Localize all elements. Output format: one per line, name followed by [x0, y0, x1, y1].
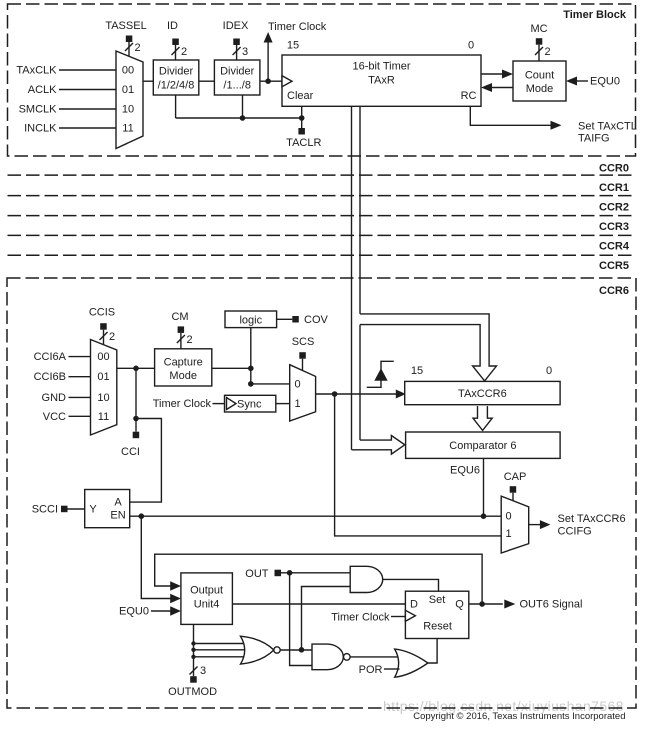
- svg-text:/1/2/4/8: /1/2/4/8: [158, 80, 195, 92]
- svg-text:Y: Y: [89, 504, 97, 516]
- svg-text:RC: RC: [461, 90, 477, 102]
- svg-text:0: 0: [546, 365, 552, 377]
- svg-text:Sync: Sync: [237, 399, 262, 411]
- svg-text:INCLK: INCLK: [24, 123, 57, 135]
- svg-text:OUT6 Signal: OUT6 Signal: [520, 599, 583, 611]
- svg-text:Capture: Capture: [164, 357, 203, 369]
- svg-text:SCCI: SCCI: [32, 504, 58, 516]
- svg-text:CM: CM: [171, 311, 188, 323]
- svg-text:2: 2: [187, 334, 193, 346]
- svg-text:2: 2: [109, 331, 115, 343]
- svg-text:Divider: Divider: [220, 66, 255, 78]
- svg-text:CCR2: CCR2: [599, 202, 629, 214]
- svg-text:1: 1: [294, 398, 300, 410]
- svg-text:SCS: SCS: [292, 336, 315, 348]
- svg-text:Divider: Divider: [159, 66, 194, 78]
- svg-text:MC: MC: [530, 23, 547, 35]
- svg-text:logic: logic: [239, 315, 262, 327]
- svg-text:CCIFG: CCIFG: [558, 526, 592, 538]
- svg-text:A: A: [114, 497, 122, 509]
- svg-text:Unit4: Unit4: [194, 599, 220, 611]
- svg-text:11: 11: [122, 123, 133, 135]
- svg-text:CCR3: CCR3: [599, 221, 629, 233]
- svg-text:EQU6: EQU6: [450, 465, 480, 477]
- svg-text:CCR4: CCR4: [599, 241, 630, 253]
- svg-text:2: 2: [545, 46, 551, 58]
- svg-text:Count: Count: [525, 70, 554, 82]
- svg-text:EN: EN: [110, 510, 125, 522]
- svg-text:0: 0: [294, 379, 300, 391]
- svg-text:POR: POR: [359, 664, 383, 676]
- svg-text:Mode: Mode: [169, 370, 197, 382]
- svg-text:IDEX: IDEX: [223, 20, 249, 32]
- svg-text:TAxCCR6: TAxCCR6: [458, 388, 507, 400]
- svg-text:10: 10: [97, 392, 109, 404]
- svg-text:0: 0: [505, 511, 511, 523]
- svg-text:TASSEL: TASSEL: [105, 20, 146, 32]
- svg-text:OUTMOD: OUTMOD: [168, 686, 217, 698]
- svg-text:Reset: Reset: [423, 621, 452, 633]
- svg-text:16-bit Timer: 16-bit Timer: [352, 61, 410, 73]
- svg-text:OUT: OUT: [245, 568, 269, 580]
- svg-text:TAxCLK: TAxCLK: [16, 65, 57, 77]
- svg-text:COV: COV: [304, 314, 329, 326]
- svg-text:01: 01: [122, 84, 134, 96]
- svg-text:01: 01: [97, 371, 109, 383]
- svg-text:EQU0: EQU0: [590, 76, 620, 88]
- svg-text:11: 11: [98, 411, 109, 423]
- svg-text:SMCLK: SMCLK: [19, 104, 58, 116]
- svg-text:3: 3: [242, 46, 248, 58]
- svg-text:00: 00: [97, 351, 109, 363]
- svg-text:TACLR: TACLR: [286, 137, 321, 149]
- svg-text:TAxR: TAxR: [368, 75, 395, 87]
- svg-text:Comparator 6: Comparator 6: [449, 440, 516, 452]
- svg-text:CCI6B: CCI6B: [34, 371, 66, 383]
- svg-text:Mode: Mode: [526, 83, 554, 95]
- svg-text:2: 2: [135, 42, 141, 54]
- svg-text:D: D: [410, 599, 418, 611]
- svg-text:EQU0: EQU0: [119, 606, 149, 618]
- svg-text:GND: GND: [42, 392, 67, 404]
- svg-text:CCR0: CCR0: [599, 163, 629, 175]
- svg-text:3: 3: [200, 665, 206, 677]
- svg-text:Output: Output: [190, 585, 223, 597]
- svg-text:2: 2: [181, 46, 187, 58]
- svg-text:Q: Q: [455, 599, 464, 611]
- svg-text:TAIFG: TAIFG: [578, 133, 610, 145]
- svg-text:Set: Set: [429, 594, 446, 606]
- svg-text:CCR6: CCR6: [599, 285, 629, 297]
- svg-text:Set TAxCCR6: Set TAxCCR6: [558, 513, 626, 525]
- svg-text:Timer Clock: Timer Clock: [268, 21, 327, 33]
- svg-text:VCC: VCC: [43, 411, 66, 423]
- svg-text:Timer Clock: Timer Clock: [331, 612, 390, 624]
- svg-text:ACLK: ACLK: [28, 84, 57, 96]
- svg-text:CCIS: CCIS: [89, 307, 115, 319]
- svg-text:0: 0: [468, 40, 474, 52]
- svg-text:Timer Block: Timer Block: [563, 9, 627, 21]
- svg-text:Timer Clock: Timer Clock: [153, 398, 212, 410]
- svg-text:15: 15: [287, 40, 299, 52]
- svg-text:/1.../8: /1.../8: [223, 80, 251, 92]
- svg-text:10: 10: [122, 104, 134, 116]
- svg-text:CCR5: CCR5: [599, 260, 629, 272]
- svg-text:CCI: CCI: [121, 446, 140, 458]
- svg-text:15: 15: [411, 365, 423, 377]
- svg-text:CCR1: CCR1: [599, 182, 629, 194]
- svg-text:Copyright © 2016, Texas Instru: Copyright © 2016, Texas Instruments Inco…: [413, 711, 625, 722]
- svg-text:ID: ID: [167, 20, 178, 32]
- svg-text:Set TAxCTL: Set TAxCTL: [578, 121, 637, 133]
- svg-text:Clear: Clear: [287, 90, 314, 102]
- svg-text:00: 00: [122, 65, 134, 77]
- svg-text:CCI6A: CCI6A: [34, 351, 67, 363]
- svg-text:1: 1: [505, 528, 511, 540]
- svg-text:CAP: CAP: [504, 471, 527, 483]
